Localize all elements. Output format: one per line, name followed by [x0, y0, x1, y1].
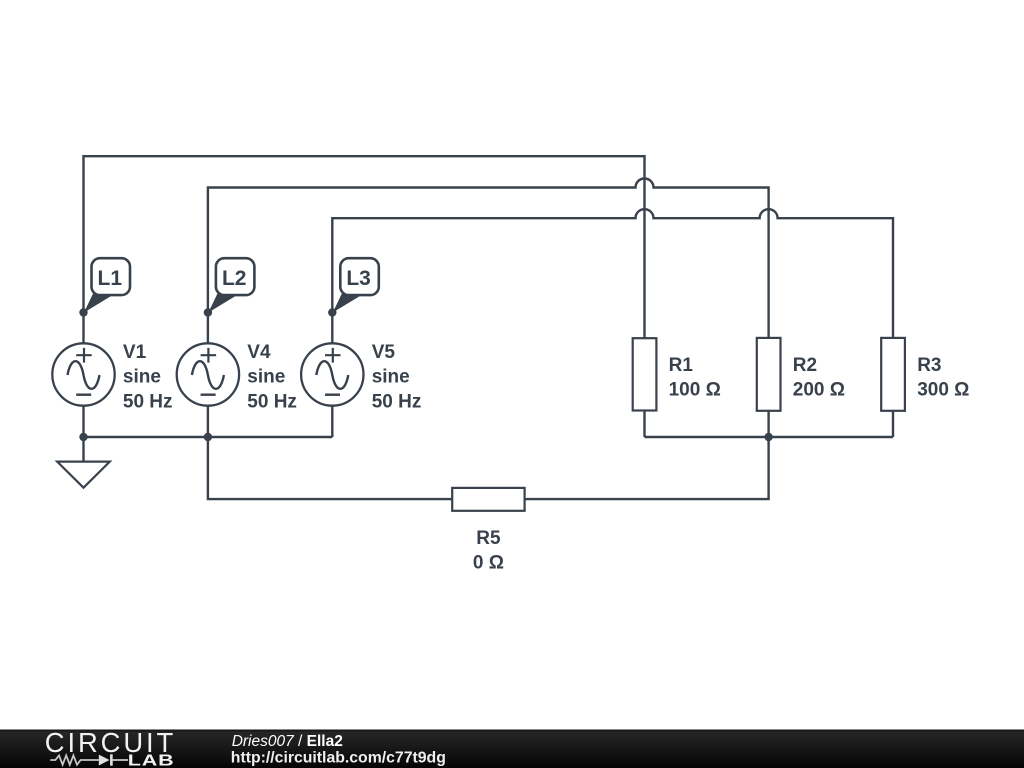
svg-text:L1: L1: [98, 267, 123, 290]
voltage source V1: [52, 343, 114, 405]
flag label L1: [84, 258, 130, 312]
voltage source V5: [301, 343, 363, 405]
wire from node at V4 bottom down to R5 left: [208, 437, 452, 499]
resistor R1: [633, 338, 657, 410]
flag label L2: [208, 258, 254, 312]
wire R3 bottom: [892, 411, 894, 437]
node L1 junction dot: [79, 308, 87, 316]
logo resistor zigzag: [50, 755, 99, 764]
svg-text:LAB: LAB: [128, 751, 175, 768]
junction dot R2 bottom: [764, 433, 772, 441]
voltage source V4: [177, 343, 239, 405]
wire from R5 right up to resistor bottom bus: [525, 437, 769, 499]
wire ground stem: [82, 437, 84, 462]
node L2 junction dot: [204, 308, 212, 316]
svg-text:L3: L3: [346, 267, 371, 290]
wire V1 bottom: [82, 406, 84, 438]
wire V4 bottom: [207, 406, 209, 438]
wire R2 bottom: [767, 411, 769, 437]
wire resistor bottom bus: [645, 436, 894, 438]
svg-text:http://circuitlab.com/c77t9dg: http://circuitlab.com/c77t9dg: [231, 749, 446, 766]
junction dot V4 bottom: [204, 433, 212, 441]
wire V5 bottom: [331, 406, 333, 438]
logo diode: [99, 755, 110, 766]
flag label L3: [333, 258, 379, 312]
svg-text:Dries007 / Ella2: Dries007 / Ella2: [232, 733, 343, 750]
wire bottom bus of sources: [84, 436, 333, 438]
resistor R3: [881, 338, 905, 411]
wire net A: V1 top to R1 top: [84, 156, 645, 344]
wire R1 bottom: [643, 411, 645, 437]
node L3 junction dot: [328, 308, 336, 316]
junction dot ground node: [79, 433, 87, 441]
ground: [57, 462, 110, 488]
resistor R2: [757, 338, 781, 411]
resistor R5: [452, 488, 524, 511]
wire net C: V5 top to R3 top (hops over R1 and R2 wires): [332, 209, 893, 344]
svg-text:L2: L2: [222, 267, 247, 290]
wire net B: V4 top to R2 top (hop over R1 wire): [208, 179, 769, 345]
